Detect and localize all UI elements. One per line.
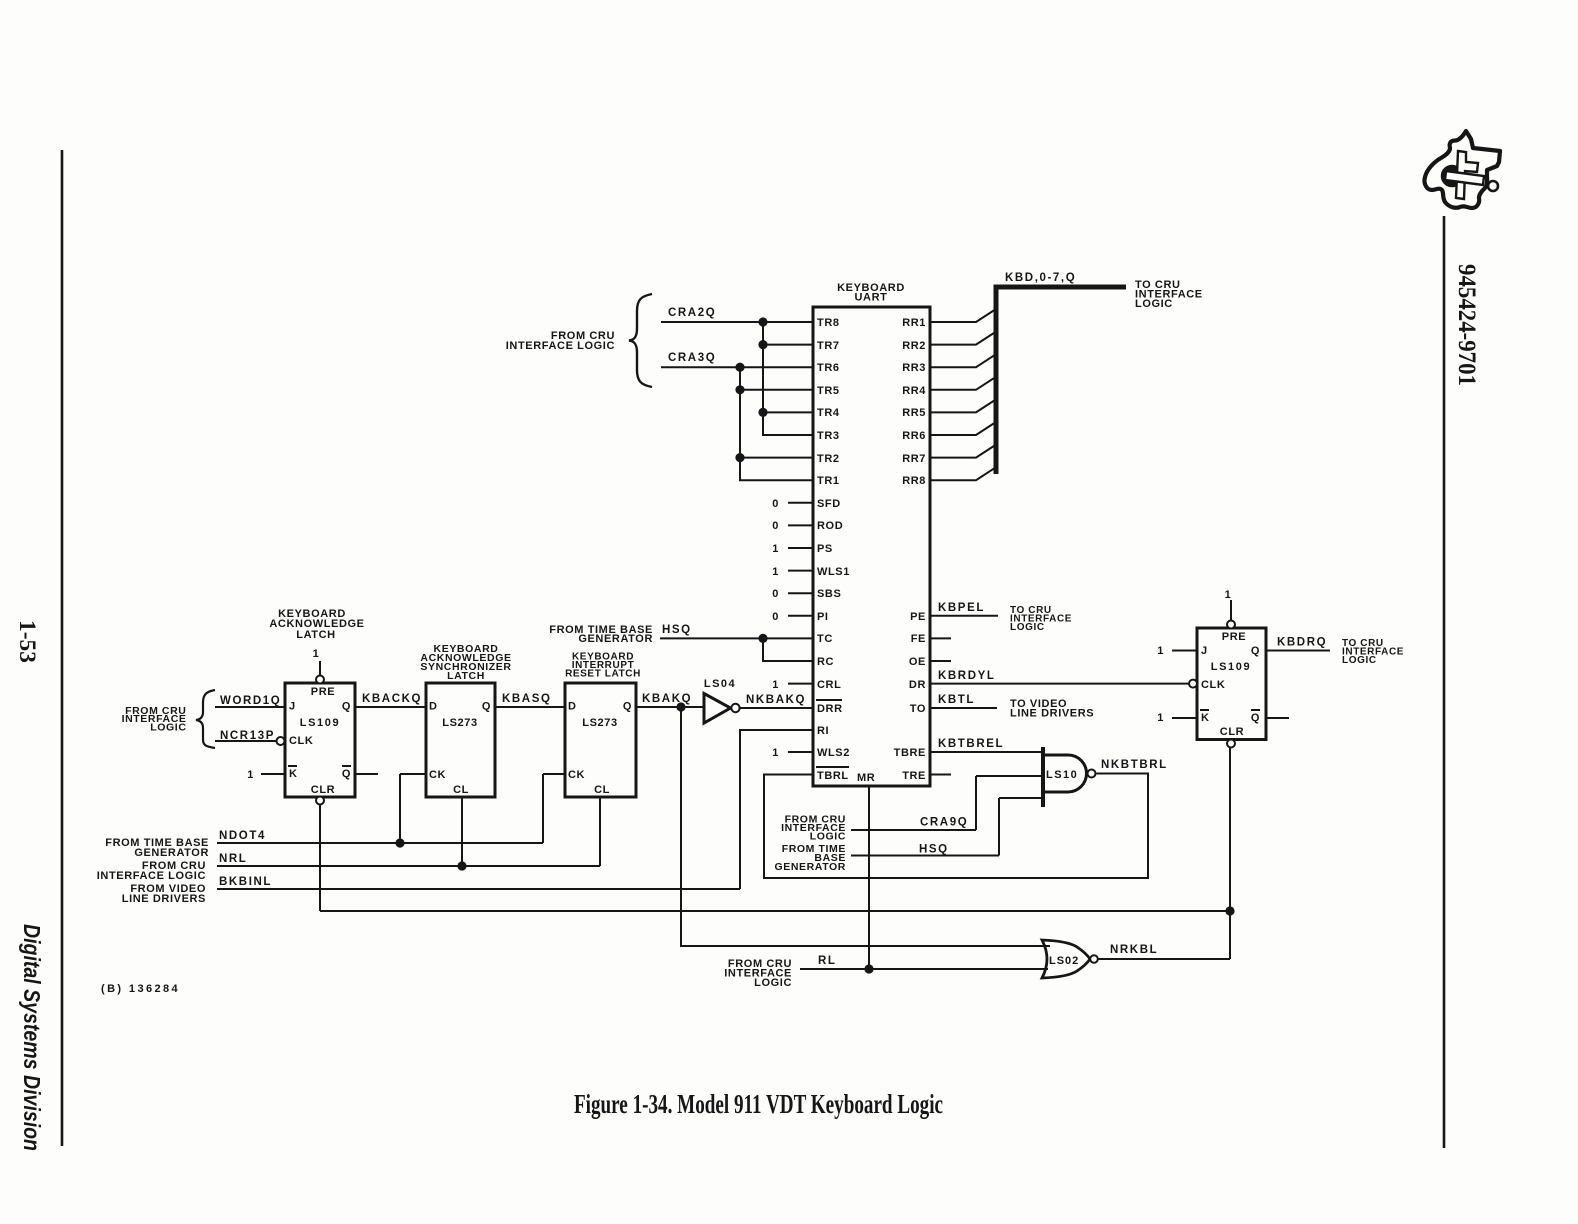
- svg-text:KBACKQ: KBACKQ: [362, 693, 422, 705]
- svg-text:J: J: [1201, 645, 1208, 657]
- svg-text:TO: TO: [910, 703, 926, 715]
- svg-text:WORD1Q: WORD1Q: [220, 695, 281, 707]
- svg-text:WLS1: WLS1: [817, 566, 850, 578]
- svg-text:CLR: CLR: [311, 784, 335, 796]
- svg-text:NRKBL: NRKBL: [1110, 944, 1158, 956]
- svg-text:TR8: TR8: [817, 317, 840, 329]
- svg-text:LS04: LS04: [704, 678, 736, 690]
- svg-text:CRL: CRL: [817, 679, 841, 691]
- svg-text:KBRDYL: KBRDYL: [938, 670, 996, 682]
- svg-text:KBAKQ: KBAKQ: [642, 693, 692, 705]
- svg-text:1: 1: [1157, 645, 1164, 657]
- svg-text:KBTBREL: KBTBREL: [938, 738, 1004, 750]
- svg-text:Q: Q: [342, 768, 351, 780]
- svg-text:KBTL: KBTL: [938, 694, 975, 706]
- svg-text:Q: Q: [623, 701, 632, 713]
- svg-text:RR4: RR4: [902, 385, 926, 397]
- svg-text:0: 0: [772, 498, 779, 510]
- svg-text:FE: FE: [911, 633, 926, 645]
- svg-text:LS10: LS10: [1046, 769, 1078, 781]
- svg-text:TR2: TR2: [817, 453, 840, 465]
- svg-text:LINE DRIVERS: LINE DRIVERS: [1010, 708, 1094, 720]
- svg-text:TR4: TR4: [817, 407, 840, 419]
- svg-text:Digital Systems Division: Digital Systems Division: [19, 924, 45, 1151]
- svg-text:INTERFACE LOGIC: INTERFACE LOGIC: [506, 340, 615, 352]
- svg-text:D: D: [568, 701, 577, 713]
- svg-text:LS02: LS02: [1049, 955, 1079, 967]
- svg-text:CL: CL: [594, 784, 610, 796]
- svg-text:LATCH: LATCH: [296, 629, 335, 641]
- svg-text:UART: UART: [855, 292, 888, 304]
- svg-text:PS: PS: [817, 543, 833, 555]
- svg-text:LS273: LS273: [582, 717, 617, 729]
- svg-text:LOGIC: LOGIC: [754, 977, 792, 989]
- svg-text:NCR13P: NCR13P: [220, 730, 275, 742]
- svg-text:TBRL: TBRL: [817, 770, 849, 782]
- svg-text:RR8: RR8: [902, 475, 926, 487]
- svg-text:NDOT4: NDOT4: [219, 830, 266, 842]
- svg-text:RR6: RR6: [902, 430, 926, 442]
- svg-text:SBS: SBS: [817, 588, 841, 600]
- svg-text:DR: DR: [909, 679, 926, 691]
- svg-text:CK: CK: [429, 769, 446, 781]
- svg-text:945424-9701: 945424-9701: [1453, 264, 1480, 386]
- svg-text:1: 1: [1157, 712, 1164, 724]
- svg-text:HSQ: HSQ: [662, 624, 692, 636]
- svg-text:LS109: LS109: [1211, 661, 1251, 673]
- svg-text:TR3: TR3: [817, 430, 840, 442]
- svg-text:PRE: PRE: [311, 686, 335, 698]
- svg-text:1: 1: [772, 543, 779, 555]
- svg-text:LINE DRIVERS: LINE DRIVERS: [122, 893, 206, 905]
- svg-text:LOGIC: LOGIC: [810, 831, 846, 843]
- svg-text:D: D: [429, 701, 438, 713]
- svg-text:CK: CK: [568, 769, 585, 781]
- svg-text:K: K: [289, 768, 298, 780]
- svg-text:CRA9Q: CRA9Q: [920, 817, 968, 829]
- svg-text:TR1: TR1: [817, 475, 840, 487]
- svg-text:KBD,0-7,Q: KBD,0-7,Q: [1005, 272, 1076, 284]
- svg-text:KBDRQ: KBDRQ: [1277, 637, 1327, 649]
- svg-text:K: K: [1201, 712, 1210, 724]
- svg-text:1: 1: [247, 769, 254, 781]
- svg-text:LOGIC: LOGIC: [1010, 622, 1045, 633]
- svg-text:Figure 1-34. Model 911 VDT Key: Figure 1-34. Model 911 VDT Keyboard Logi…: [574, 1089, 943, 1119]
- svg-text:MR: MR: [857, 772, 875, 784]
- svg-text:NKBAKQ: NKBAKQ: [746, 694, 806, 706]
- svg-text:1: 1: [1225, 589, 1232, 601]
- svg-text:NRL: NRL: [219, 853, 247, 865]
- svg-text:(B) 136284: (B) 136284: [101, 983, 180, 995]
- svg-text:RI: RI: [817, 725, 829, 737]
- svg-text:CLR: CLR: [1220, 726, 1244, 738]
- svg-text:HSQ: HSQ: [919, 844, 949, 856]
- svg-text:1: 1: [772, 566, 779, 578]
- svg-text:Q: Q: [1251, 645, 1260, 657]
- svg-text:Q: Q: [482, 701, 491, 713]
- svg-text:NKBTBRL: NKBTBRL: [1101, 759, 1168, 771]
- svg-text:PI: PI: [817, 611, 829, 623]
- svg-text:RR3: RR3: [902, 362, 926, 374]
- svg-text:CRA3Q: CRA3Q: [668, 352, 716, 364]
- svg-text:1-53: 1-53: [15, 620, 40, 663]
- svg-text:SFD: SFD: [817, 498, 841, 510]
- svg-text:TC: TC: [817, 633, 833, 645]
- svg-text:ROD: ROD: [817, 520, 843, 532]
- svg-text:KBASQ: KBASQ: [502, 693, 552, 705]
- svg-text:PRE: PRE: [1222, 631, 1246, 643]
- svg-text:J: J: [289, 701, 296, 713]
- svg-text:0: 0: [772, 588, 779, 600]
- svg-text:PE: PE: [910, 611, 926, 623]
- svg-text:TBRE: TBRE: [894, 747, 926, 759]
- svg-text:1: 1: [772, 747, 779, 759]
- svg-text:LOGIC: LOGIC: [1135, 298, 1173, 310]
- svg-text:CLK: CLK: [1201, 679, 1225, 691]
- svg-text:CL: CL: [453, 784, 469, 796]
- svg-text:INTERFACE LOGIC: INTERFACE LOGIC: [97, 870, 206, 882]
- svg-text:RL: RL: [818, 955, 837, 967]
- svg-text:RC: RC: [817, 656, 834, 668]
- svg-text:GENERATOR: GENERATOR: [774, 861, 846, 873]
- svg-text:0: 0: [772, 520, 779, 532]
- svg-text:RR2: RR2: [902, 340, 926, 352]
- svg-text:1: 1: [772, 679, 779, 691]
- svg-text:TR7: TR7: [817, 340, 840, 352]
- svg-text:TR6: TR6: [817, 362, 840, 374]
- svg-text:DRR: DRR: [817, 703, 843, 715]
- svg-text:TRE: TRE: [902, 770, 926, 782]
- svg-text:RR1: RR1: [902, 317, 926, 329]
- svg-text:LS273: LS273: [442, 717, 477, 729]
- svg-text:GENERATOR: GENERATOR: [134, 847, 209, 859]
- svg-text:CLK: CLK: [289, 735, 313, 747]
- svg-text:LOGIC: LOGIC: [150, 722, 186, 734]
- svg-text:TR5: TR5: [817, 385, 840, 397]
- svg-text:WLS2: WLS2: [817, 747, 850, 759]
- svg-text:OE: OE: [909, 656, 926, 668]
- svg-text:RR5: RR5: [902, 407, 926, 419]
- svg-text:RESET LATCH: RESET LATCH: [565, 669, 641, 680]
- svg-text:1: 1: [313, 648, 320, 660]
- svg-text:Q: Q: [1251, 712, 1260, 724]
- svg-text:CRA2Q: CRA2Q: [668, 307, 716, 319]
- svg-text:LATCH: LATCH: [447, 670, 485, 682]
- svg-text:LS109: LS109: [300, 717, 340, 729]
- svg-text:KBPEL: KBPEL: [938, 602, 985, 614]
- svg-text:LOGIC: LOGIC: [1342, 655, 1377, 666]
- svg-text:Q: Q: [342, 701, 351, 713]
- svg-text:BKBINL: BKBINL: [219, 876, 272, 888]
- svg-text:RR7: RR7: [902, 453, 926, 465]
- svg-text:0: 0: [772, 611, 779, 623]
- svg-text:GENERATOR: GENERATOR: [578, 633, 653, 645]
